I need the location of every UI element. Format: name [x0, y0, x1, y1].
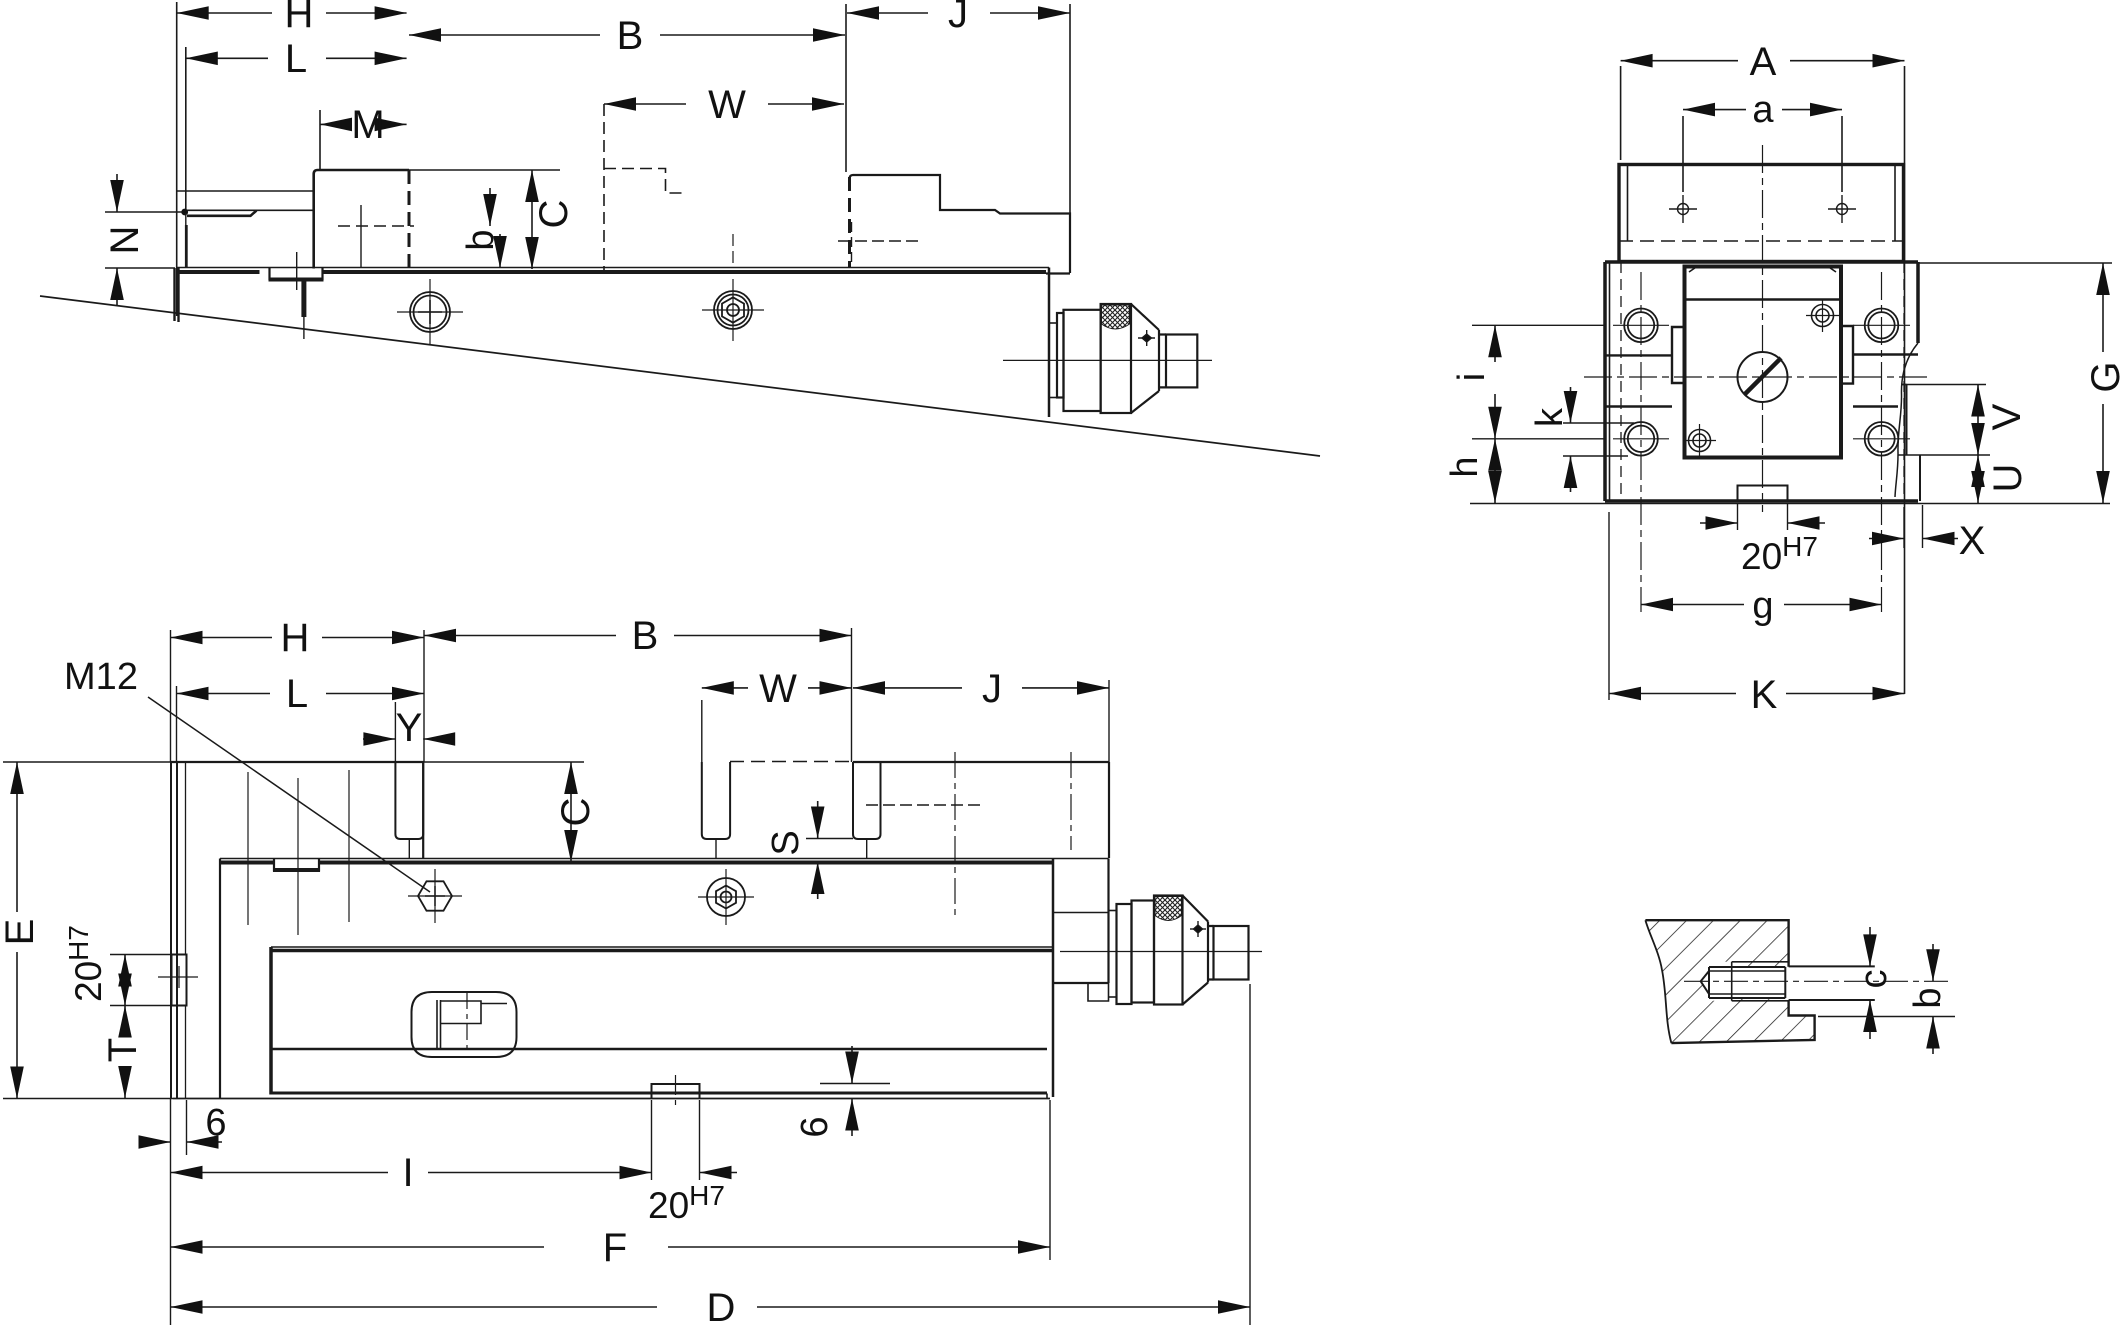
svg-text:I: I	[402, 1151, 413, 1195]
svg-text:C: C	[554, 798, 598, 827]
svg-text:W: W	[759, 667, 797, 711]
svg-text:J: J	[948, 0, 968, 36]
svg-text:B: B	[617, 14, 644, 58]
svg-text:H: H	[285, 0, 314, 36]
svg-text:6: 6	[205, 1102, 226, 1144]
svg-text:h: h	[1444, 456, 1486, 477]
svg-text:B: B	[632, 614, 659, 658]
svg-text:M12: M12	[64, 656, 138, 698]
svg-text:C: C	[532, 200, 576, 229]
svg-text:N: N	[103, 226, 147, 255]
svg-text:A: A	[1750, 40, 1777, 84]
svg-text:c: c	[1853, 970, 1895, 989]
svg-text:E: E	[0, 919, 42, 946]
svg-text:k: k	[1529, 407, 1571, 427]
svg-text:i: i	[1451, 373, 1493, 381]
svg-text:L: L	[286, 672, 308, 716]
svg-text:b: b	[460, 229, 502, 250]
svg-text:Y: Y	[396, 706, 423, 750]
svg-text:J: J	[982, 667, 1002, 711]
svg-text:L: L	[285, 37, 307, 81]
svg-text:U: U	[1986, 464, 2030, 493]
svg-text:b: b	[1907, 987, 1949, 1008]
svg-text:K: K	[1751, 673, 1778, 717]
svg-text:S: S	[765, 830, 807, 855]
svg-text:X: X	[1959, 519, 1986, 563]
svg-text:M: M	[351, 103, 384, 147]
svg-text:F: F	[603, 1226, 627, 1270]
svg-text:H: H	[281, 616, 310, 660]
svg-text:V: V	[1985, 403, 2029, 430]
svg-text:a: a	[1752, 89, 1774, 131]
svg-text:T: T	[101, 1038, 145, 1062]
svg-text:6: 6	[794, 1116, 836, 1137]
svg-text:G: G	[2084, 361, 2122, 392]
svg-text:W: W	[708, 83, 746, 127]
svg-text:g: g	[1752, 585, 1773, 627]
svg-text:D: D	[707, 1286, 736, 1330]
